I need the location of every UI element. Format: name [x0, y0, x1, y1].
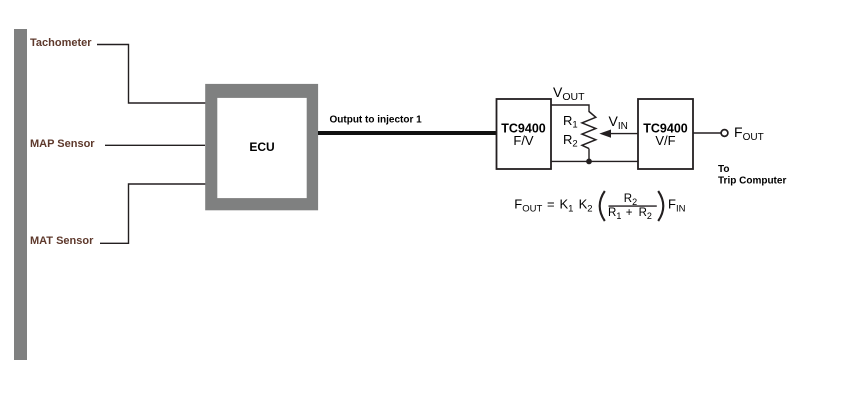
svg-text:MAP Sensor: MAP Sensor: [30, 138, 95, 150]
wire resistor bottom to junction: [588, 149, 590, 162]
svg-text:Tachometer: Tachometer: [30, 37, 92, 49]
block U2 TC9400 V/F: [638, 99, 693, 169]
svg-text:To: To: [718, 164, 729, 175]
wire bottom F/V to V/F: [551, 160, 638, 162]
vehicle harness bar: [14, 29, 27, 360]
wire Tachometer to ECU: [97, 45, 206, 104]
svg-text:=: =: [547, 197, 555, 212]
svg-text:V/F: V/F: [655, 133, 675, 148]
svg-text:F/V: F/V: [513, 133, 534, 148]
resistor R1 R2 (potentiometer zigzag): [582, 112, 596, 149]
wire MAT Sensor to ECU: [100, 184, 206, 243]
block ECU: [205, 84, 318, 210]
svg-text:Trip Computer: Trip Computer: [718, 176, 786, 187]
wire thick output to injector: [318, 131, 497, 135]
equation FOUT = K1 K2 (R2/(R1+R2)) FIN: [514, 191, 685, 221]
svg-text:MAT Sensor: MAT Sensor: [30, 235, 94, 247]
terminal FOUT circle: [721, 130, 728, 137]
junction node dot: [586, 159, 592, 165]
svg-text:Output to injector 1: Output to injector 1: [330, 114, 423, 125]
svg-text:ECU: ECU: [249, 140, 274, 154]
wire VOUT from F/V to resistor top: [551, 105, 589, 112]
wiper arrow from V/F to resistor: [608, 133, 638, 135]
svg-text:+: +: [626, 207, 633, 219]
block U1 TC9400 F/V: [497, 99, 552, 169]
wire MAP Sensor to ECU: [105, 144, 205, 146]
wire V/F output: [693, 132, 721, 134]
